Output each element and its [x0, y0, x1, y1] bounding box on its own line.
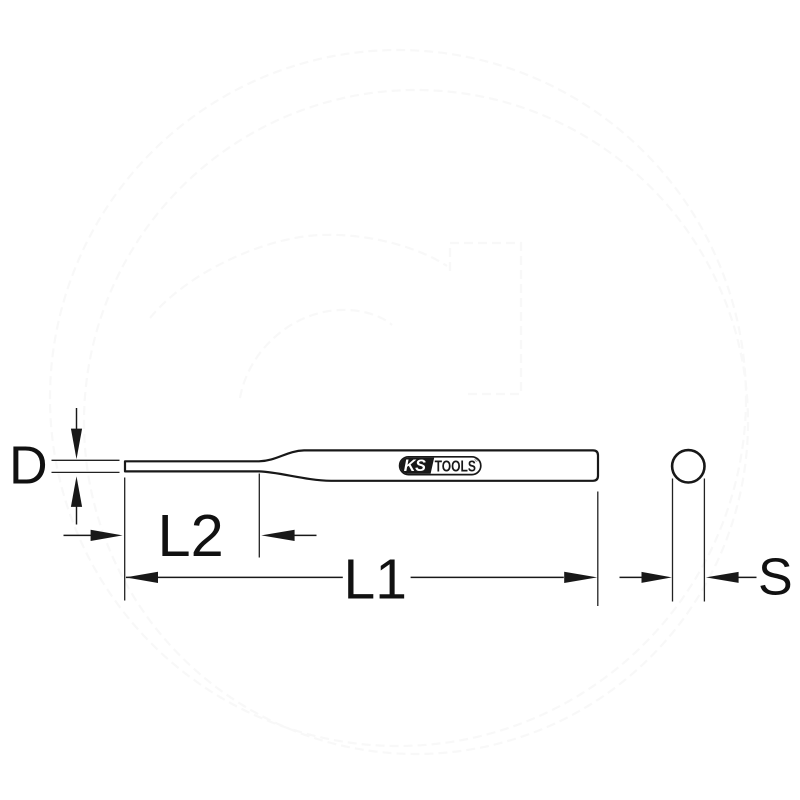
- D lower arrowhead (up): [71, 476, 82, 507]
- L1 right extension line: [597, 492, 599, 607]
- S right arrowhead (left): [706, 572, 739, 583]
- S left extension line: [672, 479, 674, 602]
- svg-text:L2: L2: [158, 502, 224, 569]
- watermark outer ring: [50, 50, 748, 754]
- svg-text:TOOLS: TOOLS: [435, 458, 476, 476]
- KS TOOLS logo capsule: [400, 457, 481, 475]
- L1 dimension line left segment: [126, 576, 343, 578]
- L2 left arrow tail: [64, 534, 93, 536]
- L1 dimension line right segment: [411, 576, 564, 578]
- extension lines: [52, 460, 705, 606]
- watermark counter arc small: [240, 310, 392, 398]
- L1 left arrowhead (left): [125, 572, 158, 583]
- D lower arrow shaft: [76, 506, 78, 525]
- D bottom extension line: [52, 471, 120, 473]
- S right extension line: [703, 479, 705, 602]
- svg-text:KS: KS: [404, 457, 426, 475]
- svg-text:D: D: [9, 437, 48, 496]
- S left arrow tail: [620, 576, 643, 578]
- arrowheads: [71, 429, 739, 583]
- D top extension line: [52, 459, 120, 461]
- KS logo black field: [400, 458, 434, 474]
- L2 right extension line: [258, 474, 260, 558]
- D upper arrowhead (down): [71, 429, 82, 460]
- svg-text:L1: L1: [344, 547, 407, 611]
- stock diameter circle: [672, 450, 704, 482]
- watermark counter arc large: [150, 235, 447, 318]
- D upper arrow shaft: [76, 408, 78, 429]
- svg-text:®: ®: [475, 457, 479, 464]
- svg-text:S: S: [758, 549, 793, 607]
- punch outline (tip, taper, handle body): [125, 450, 598, 480]
- L2 right arrowhead (left): [261, 530, 294, 541]
- watermark inner ring: [84, 90, 748, 754]
- L1 right arrowhead (right): [564, 572, 597, 583]
- L1/L2 left extension line: [124, 478, 126, 601]
- watermark G spur: [450, 243, 521, 394]
- L2 left arrowhead (right): [91, 530, 123, 541]
- dimension lines: [64, 408, 757, 577]
- S left arrowhead (right): [642, 572, 672, 583]
- L2 right arrow tail: [294, 534, 317, 536]
- S right arrow tail: [738, 576, 757, 578]
